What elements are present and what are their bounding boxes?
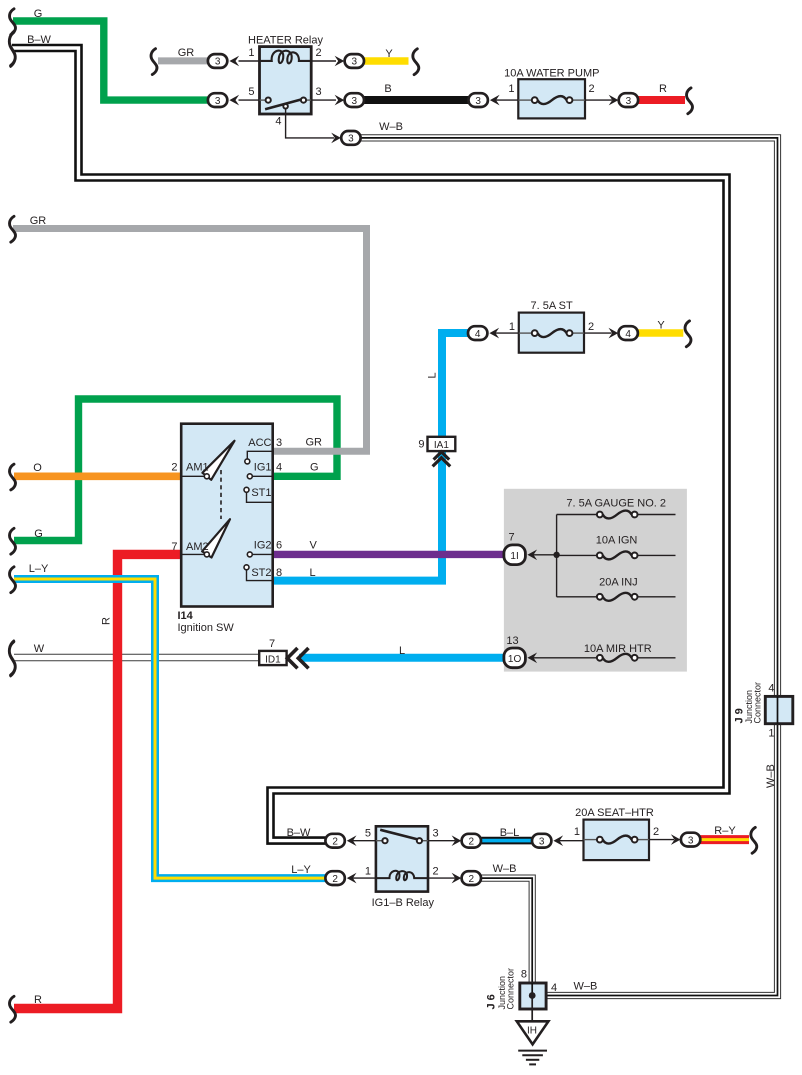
svg-text:10A WATER PUMP: 10A WATER PUMP xyxy=(504,68,599,80)
connector oval 4 ST fuse right xyxy=(609,326,638,340)
wire R red water pump right xyxy=(636,96,686,104)
connector IA1 chevrons up xyxy=(433,452,451,467)
ignition switch AM1 pivot and wiper xyxy=(181,441,234,480)
svg-text:3: 3 xyxy=(433,828,439,840)
connector oval 3 B row right xyxy=(469,93,500,107)
stub break B-W top-left xyxy=(9,32,51,66)
svg-text:2: 2 xyxy=(433,866,439,878)
svg-text:1: 1 xyxy=(574,826,580,838)
connector IA1 box xyxy=(418,437,455,451)
svg-text:AM2: AM2 xyxy=(186,541,209,553)
ignition switch I14 box xyxy=(181,424,273,607)
fuse 20A SEAT-HTR box xyxy=(574,807,659,860)
svg-text:Y: Y xyxy=(657,320,665,332)
svg-text:Connector: Connector xyxy=(506,968,516,1010)
fuse block gray box xyxy=(504,489,687,672)
heater relay pin 4 wire to connector xyxy=(286,109,334,138)
wire Y yellow ST fuse right xyxy=(637,329,684,337)
connector oval 1I xyxy=(504,532,537,565)
svg-text:3: 3 xyxy=(688,835,694,846)
svg-text:L: L xyxy=(427,372,439,378)
svg-text:V: V xyxy=(310,540,318,552)
wire V purple ignition IG2 pin6 to 1I xyxy=(273,551,505,558)
fuse 10A MIR HTR xyxy=(531,643,676,662)
connector line relay pin5 left xyxy=(239,99,260,101)
svg-text:ST2: ST2 xyxy=(251,567,271,579)
svg-text:IG1: IG1 xyxy=(254,462,272,474)
wire L-Y left to IG1-B relay pin1 xyxy=(14,579,326,878)
svg-text:10A IGN: 10A IGN xyxy=(596,535,638,547)
svg-text:1: 1 xyxy=(509,321,515,333)
connector line relay pin2 right xyxy=(311,60,336,62)
stub break Y right xyxy=(413,49,419,75)
ignition switch pin 3 and GR label xyxy=(276,437,322,450)
connector oval 2 L-Y row xyxy=(325,871,376,885)
svg-text:13: 13 xyxy=(506,635,518,647)
heater relay box xyxy=(260,47,312,114)
wire W-B heater relay pin4 to J9 to J6 pin4 xyxy=(361,138,778,996)
connector ID1 chevrons left xyxy=(287,648,308,668)
wire W from left to ID1 xyxy=(14,654,260,662)
svg-text:IG1–B Relay: IG1–B Relay xyxy=(372,897,435,909)
connector oval 2 B-W row xyxy=(325,834,376,848)
connector line to water pump fuse xyxy=(493,99,518,101)
J6 designator rotated xyxy=(486,968,516,1010)
svg-text:10A MIR HTR: 10A MIR HTR xyxy=(584,643,652,655)
svg-text:3: 3 xyxy=(215,96,221,107)
connector oval 3 W-B row xyxy=(331,131,360,145)
ignition switch ST1 contact xyxy=(244,487,273,502)
fuse 10A IGN xyxy=(557,535,676,560)
svg-text:R: R xyxy=(34,994,42,1006)
svg-text:B: B xyxy=(384,83,391,95)
svg-text:ACC: ACC xyxy=(248,437,271,449)
stub break R right xyxy=(687,88,693,114)
svg-text:20A SEAT–HTR: 20A SEAT–HTR xyxy=(575,807,654,819)
ignition switch designator I14 xyxy=(178,610,235,634)
svg-text:2: 2 xyxy=(332,874,338,885)
svg-text:5: 5 xyxy=(248,86,254,98)
svg-text:4: 4 xyxy=(276,462,282,474)
svg-text:1: 1 xyxy=(508,83,514,95)
stub break O left xyxy=(10,462,43,490)
svg-text:3: 3 xyxy=(348,134,354,145)
svg-text:1: 1 xyxy=(248,47,254,59)
heater relay coil xyxy=(260,51,312,64)
svg-text:W: W xyxy=(34,643,45,655)
wire W-B IG1-B relay pin2 to J6 pin8 xyxy=(480,878,532,983)
svg-text:R: R xyxy=(101,617,113,625)
wire G green left to ignition IG1 pin4 xyxy=(14,399,337,541)
svg-text:HEATER Relay: HEATER Relay xyxy=(248,35,323,47)
ignition switch pin 8 and L label xyxy=(276,567,316,579)
ignition switch mechanical link dashed xyxy=(220,470,222,519)
svg-text:GR: GR xyxy=(30,215,47,227)
svg-text:4: 4 xyxy=(768,683,774,695)
svg-text:7: 7 xyxy=(269,638,275,650)
junction dot xyxy=(553,552,559,558)
svg-text:3: 3 xyxy=(626,96,632,107)
wire GR gray left to ignition ACC pin3 xyxy=(13,229,367,452)
svg-text:9: 9 xyxy=(418,439,424,451)
connector oval 3 B-L right xyxy=(532,834,584,848)
connector oval 3 Y row xyxy=(335,54,364,68)
svg-text:AM1: AM1 xyxy=(186,462,209,474)
junction connector J9 box xyxy=(765,696,793,723)
stub break GR left xyxy=(10,215,47,242)
connector line relay pin1 left xyxy=(239,60,260,62)
svg-text:1O: 1O xyxy=(508,654,522,665)
fuse 7.5A GAUGE NO.2 xyxy=(557,498,676,519)
junction connector J6 box xyxy=(520,983,546,1009)
fuse 10A WATER PUMP box xyxy=(504,68,599,119)
svg-text:L: L xyxy=(310,567,316,579)
wire Y yellow heater relay pin2 xyxy=(363,57,409,65)
svg-text:Y: Y xyxy=(385,48,393,60)
svg-text:W–B: W–B xyxy=(574,981,598,993)
svg-text:L–Y: L–Y xyxy=(29,563,49,575)
svg-text:3: 3 xyxy=(276,437,282,449)
svg-text:Ignition SW: Ignition SW xyxy=(178,622,235,634)
svg-text:2: 2 xyxy=(653,826,659,838)
wire R-Y seat fuse right xyxy=(700,835,749,844)
svg-text:GR: GR xyxy=(178,47,195,59)
stub break R-Y right xyxy=(751,827,757,853)
svg-text:G: G xyxy=(310,462,319,474)
ground wire from J6 xyxy=(531,996,533,1022)
svg-text:1I: 1I xyxy=(510,551,518,562)
svg-text:3: 3 xyxy=(215,57,221,68)
svg-text:B–W: B–W xyxy=(27,34,51,46)
ground IH triangle xyxy=(517,1021,549,1044)
connector oval 3 R-Y row xyxy=(671,833,700,847)
fuse 7.5A ST box xyxy=(509,300,594,353)
connector line oval4 to ST fuse xyxy=(493,332,519,334)
ignition switch pin 4 and G label xyxy=(276,462,319,474)
svg-text:7. 5A GAUGE NO. 2: 7. 5A GAUGE NO. 2 xyxy=(566,498,666,510)
svg-text:20A INJ: 20A INJ xyxy=(599,577,638,589)
wire R red AM2 xyxy=(14,554,181,1008)
svg-text:7: 7 xyxy=(171,541,177,553)
svg-text:1: 1 xyxy=(365,866,371,878)
svg-text:8: 8 xyxy=(521,969,527,981)
ST fuse line right xyxy=(584,332,612,334)
wire B black water pump xyxy=(363,96,470,104)
J9 designator rotated xyxy=(734,682,763,724)
fuse branch vertical xyxy=(556,515,558,597)
fuse 20A INJ xyxy=(557,577,676,601)
connector oval 3 GR row xyxy=(208,54,239,68)
ignition switch ACC contact xyxy=(245,437,273,464)
svg-text:GR: GR xyxy=(306,437,323,449)
ignition switch IG1 contact xyxy=(247,462,272,479)
svg-text:2: 2 xyxy=(171,462,177,474)
svg-text:6: 6 xyxy=(276,540,282,552)
svg-text:W–B: W–B xyxy=(379,121,403,133)
svg-text:B–L: B–L xyxy=(500,827,520,839)
stub break G top-left xyxy=(10,8,43,35)
ignition switch AM2 pivot and wiper xyxy=(181,519,230,557)
connector line relay pin3 right xyxy=(311,99,336,101)
svg-text:W–B: W–B xyxy=(765,764,777,788)
water pump fuse line right xyxy=(585,99,612,101)
svg-text:2: 2 xyxy=(589,83,595,95)
connector oval 4 ST fuse left xyxy=(468,326,499,340)
svg-text:R: R xyxy=(659,83,667,95)
svg-text:R–Y: R–Y xyxy=(714,825,736,837)
svg-text:J 6: J 6 xyxy=(486,994,498,1009)
wire B-W left to right loop to IG1-B relay pin5 xyxy=(12,48,727,841)
connector line seat fuse right xyxy=(649,839,674,841)
IG1-B relay coil xyxy=(376,871,428,881)
svg-text:G: G xyxy=(34,8,43,20)
svg-text:Connector: Connector xyxy=(752,682,762,724)
IG1-B relay box xyxy=(376,826,428,891)
svg-text:ID1: ID1 xyxy=(265,654,281,665)
svg-text:IH: IH xyxy=(527,1026,537,1037)
svg-text:IG2: IG2 xyxy=(254,540,272,552)
svg-text:3: 3 xyxy=(539,836,545,847)
svg-text:3: 3 xyxy=(352,96,358,107)
svg-text:IA1: IA1 xyxy=(434,440,449,451)
connector oval 1O xyxy=(504,635,537,668)
svg-text:2: 2 xyxy=(469,836,475,847)
svg-text:B–W: B–W xyxy=(287,827,311,839)
connector ID1 box xyxy=(259,638,286,665)
stub break W left xyxy=(9,641,44,675)
svg-text:ST1: ST1 xyxy=(251,487,271,499)
svg-text:O: O xyxy=(33,462,42,474)
wire GR gray stub at heater relay pin1 xyxy=(158,57,209,64)
svg-text:W–B: W–B xyxy=(493,863,517,875)
svg-text:5: 5 xyxy=(365,828,371,840)
stub break L-Y left xyxy=(10,563,49,593)
heater relay switch contacts xyxy=(260,98,312,110)
ignition switch ST2 contact xyxy=(244,565,273,581)
wire L blue ignition ST2 pin8 to ST fuse xyxy=(273,333,468,581)
svg-text:4: 4 xyxy=(625,329,631,340)
ground hatching xyxy=(518,1051,547,1065)
wire B-L IG1-B relay pin3 to seat fuse xyxy=(480,837,533,845)
ignition switch pin 6 and V label xyxy=(276,540,318,552)
svg-text:2: 2 xyxy=(316,47,322,59)
connector oval 3 green row xyxy=(208,93,239,107)
connector oval 2 B-L row xyxy=(428,834,481,848)
svg-text:G: G xyxy=(34,528,43,540)
wire G green top to heater relay pin5 xyxy=(13,21,209,100)
svg-text:L–Y: L–Y xyxy=(291,864,311,876)
connector oval 3 B row left xyxy=(335,93,364,107)
svg-text:3: 3 xyxy=(475,96,481,107)
wire L blue ID1 to 1O xyxy=(299,654,505,662)
svg-text:I14: I14 xyxy=(178,610,194,622)
stub break GR at heater relay xyxy=(151,47,194,75)
svg-text:4: 4 xyxy=(551,982,557,994)
svg-text:4: 4 xyxy=(275,116,281,128)
svg-text:7. 5A ST: 7. 5A ST xyxy=(530,300,572,312)
svg-text:L: L xyxy=(399,645,405,657)
svg-text:2: 2 xyxy=(588,321,594,333)
svg-text:3: 3 xyxy=(352,57,358,68)
connector oval 2 W-B row bottom xyxy=(428,871,481,885)
ignition switch IG2 contact xyxy=(247,540,272,557)
svg-text:2: 2 xyxy=(469,874,475,885)
connector line 1I to branch dot xyxy=(531,554,557,556)
IG1-B relay switch xyxy=(376,830,428,844)
stub break G left xyxy=(10,528,43,554)
svg-text:3: 3 xyxy=(316,86,322,98)
connector oval 3 R row xyxy=(609,93,638,107)
svg-text:1: 1 xyxy=(768,728,774,740)
svg-text:2: 2 xyxy=(332,836,338,847)
stub break R bottom-left xyxy=(10,994,42,1022)
svg-text:4: 4 xyxy=(475,329,481,340)
stub break Y ST right xyxy=(685,321,691,347)
svg-text:7: 7 xyxy=(508,532,514,544)
svg-text:8: 8 xyxy=(276,567,282,579)
wire O orange left to ignition AM1 pin2 xyxy=(14,472,181,480)
